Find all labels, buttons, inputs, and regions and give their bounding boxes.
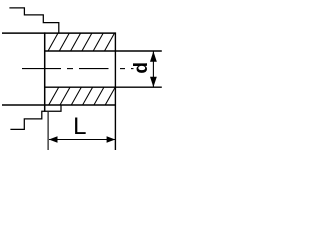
d dimension bottom arrowhead: [150, 77, 157, 87]
hub top section hatching: [48, 33, 115, 51]
shaft bottom break line: [10, 105, 61, 129]
L dimension line: [49, 139, 115, 141]
L dimension left extension line: [47, 112, 49, 150]
shaft/hub outer top line: [2, 32, 115, 34]
svg-text:d: d: [131, 62, 152, 74]
centerline (axis): [22, 68, 134, 70]
hub right edge and L extension line: [114, 32, 116, 150]
hub bottom section hatching: [49, 87, 116, 105]
svg-text:L: L: [73, 113, 86, 140]
L dimension left arrowhead: [49, 136, 58, 142]
shaft top break line: [9, 8, 58, 33]
shaft bore bottom line (d): [45, 86, 162, 88]
shaft/hub outer bottom line: [2, 104, 115, 106]
shaft bore top line (d): [45, 50, 162, 52]
L dimension right arrowhead: [107, 136, 116, 142]
d dimension line: [152, 51, 154, 87]
d dimension top arrowhead: [150, 51, 157, 61]
shaft shoulder / hub left edge: [44, 32, 46, 111]
